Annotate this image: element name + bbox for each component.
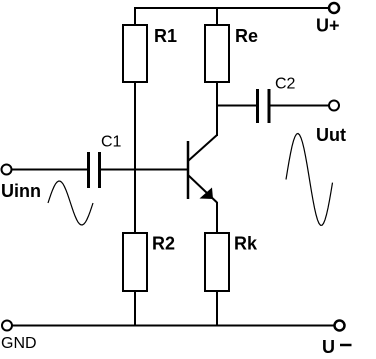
capacitor C1 (87, 152, 90, 188)
resistor R1 (123, 25, 147, 82)
resistor Re (205, 25, 229, 82)
wire C2 to output terminal (270, 105, 330, 107)
svg-text:Uut: Uut (316, 125, 346, 145)
wire emitter to Rk (216, 202, 218, 233)
resistor R2 (123, 233, 147, 291)
svg-text:R1: R1 (154, 26, 177, 46)
input sine wave symbol (48, 181, 93, 225)
wire R1 bottom to R2 top (base node vertical) (134, 82, 136, 233)
wire input terminal to C1 (11, 169, 88, 171)
wire Re top stub (216, 7, 218, 25)
wire collector node to C2 (216, 105, 257, 107)
terminal GND (2, 321, 12, 331)
svg-text:Re: Re (235, 26, 258, 46)
output sine wave symbol (286, 134, 333, 226)
transistor Q1 emitter arrow (200, 188, 214, 200)
svg-text:U+: U+ (316, 16, 340, 36)
wire C1 to base (100, 169, 188, 171)
wire top supply rail (134, 7, 330, 9)
terminal U- (335, 321, 345, 331)
terminal Uut (329, 101, 339, 111)
svg-text:R2: R2 (152, 234, 175, 254)
wire bottom ground rail (11, 325, 334, 327)
transistor Q1 base bar (187, 141, 190, 199)
resistor Rk (205, 233, 229, 291)
svg-text:Rk: Rk (234, 234, 258, 254)
svg-text:Uinn: Uinn (1, 181, 41, 201)
wire Re bottom to collector (216, 82, 218, 136)
svg-text:U: U (322, 337, 335, 357)
terminal U+ (329, 3, 339, 13)
wire R1 top stub (134, 7, 136, 25)
terminal Uinn input (2, 165, 12, 175)
transistor Q1 collector lead (188, 135, 217, 161)
transistor Q1 emitter lead (188, 175, 217, 203)
capacitor C2 (256, 89, 259, 123)
svg-text:C1: C1 (101, 134, 122, 151)
wire R2 bottom stub (134, 291, 136, 326)
wire Rk bottom stub (216, 291, 218, 326)
svg-text:C2: C2 (275, 76, 296, 93)
svg-text:GND: GND (1, 335, 37, 352)
